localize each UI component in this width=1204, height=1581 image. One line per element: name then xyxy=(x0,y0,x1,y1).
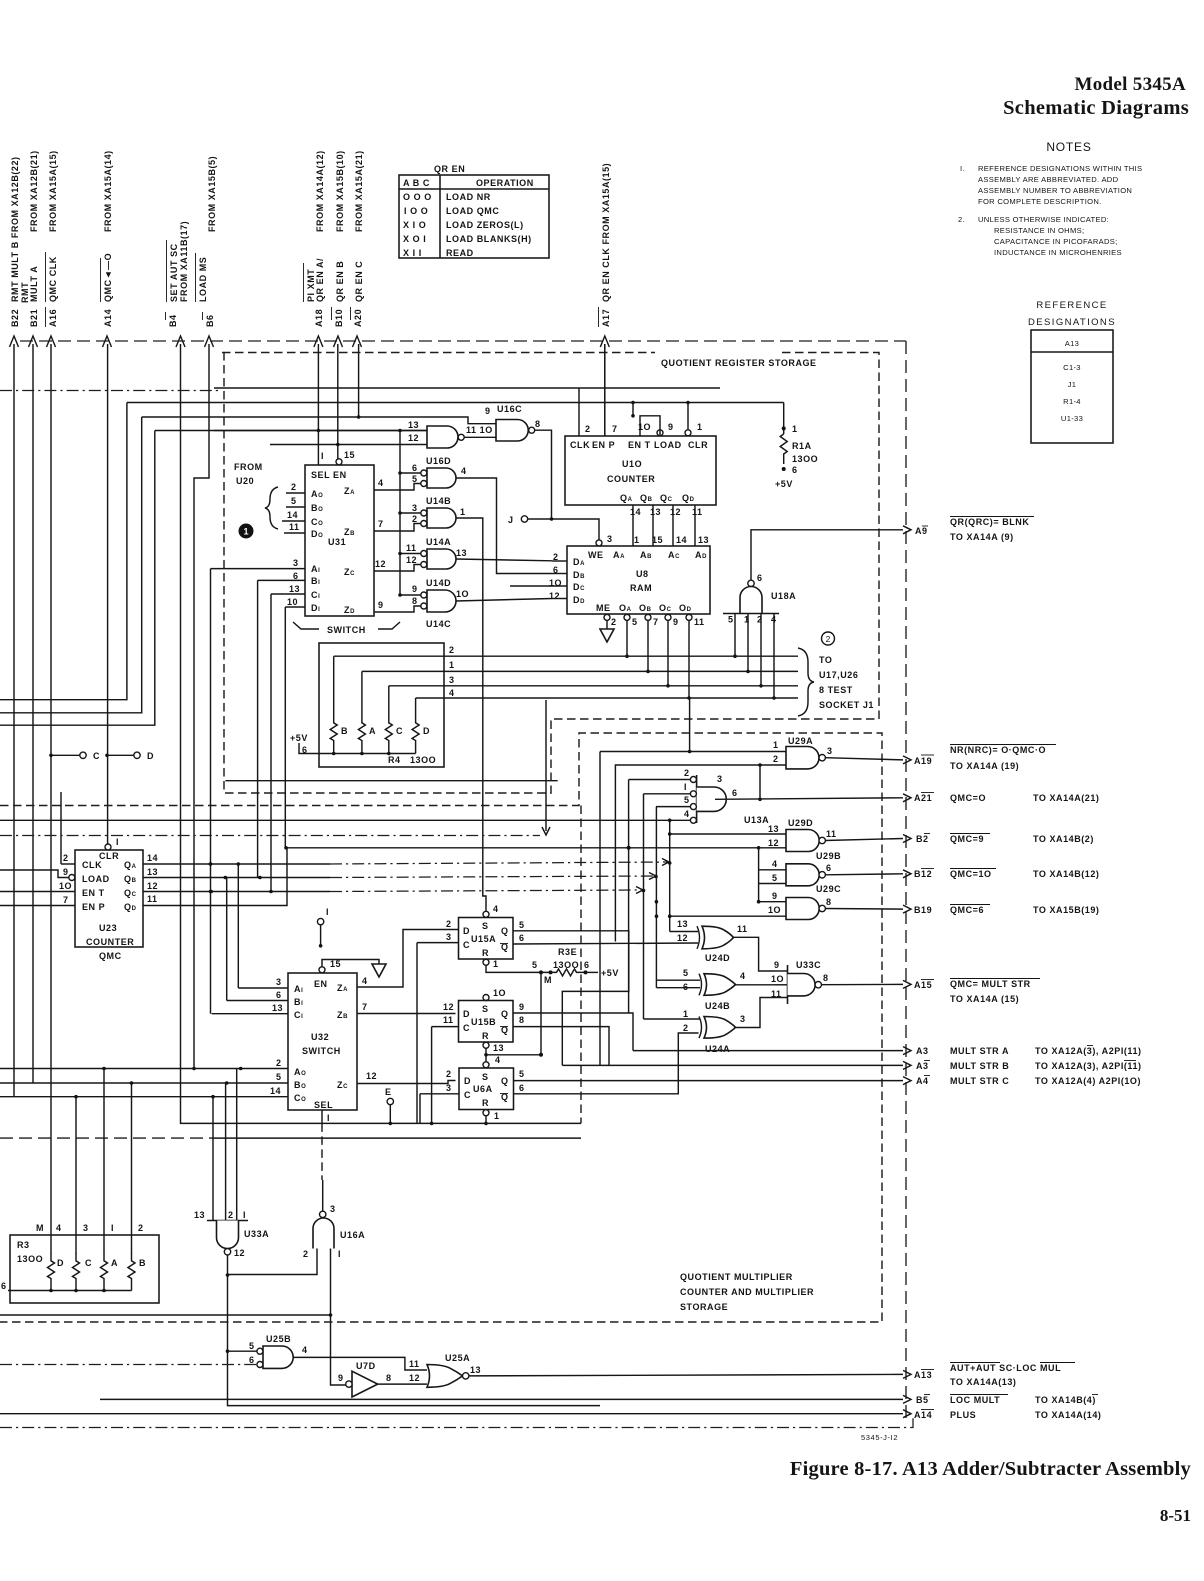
svg-text:7: 7 xyxy=(362,1002,368,1012)
svg-text:11 1O: 11 1O xyxy=(466,425,493,435)
svg-text:U16A: U16A xyxy=(340,1230,365,1240)
svg-text:QMC=6: QMC=6 xyxy=(950,905,984,915)
svg-text:CLK: CLK xyxy=(82,860,102,870)
svg-text:9: 9 xyxy=(774,960,780,970)
svg-text:A3: A3 xyxy=(916,1046,929,1056)
svg-text:MULT STR B: MULT STR B xyxy=(950,1061,1009,1071)
svg-text:14: 14 xyxy=(676,535,687,545)
svg-text:S: S xyxy=(482,921,489,931)
svg-text:U20: U20 xyxy=(236,476,254,486)
gate U7D inverter xyxy=(338,1361,427,1397)
svg-text:14: 14 xyxy=(287,510,298,520)
svg-text:READ: READ xyxy=(446,248,474,258)
flip-flop U6A xyxy=(420,1033,903,1125)
svg-text:13: 13 xyxy=(194,1210,205,1220)
svg-text:I.: I. xyxy=(960,164,965,173)
svg-text:13OO: 13OO xyxy=(410,755,436,765)
svg-text:FROM XA15A(14): FROM XA15A(14) xyxy=(103,150,113,232)
svg-text:QR EN A/: QR EN A/ xyxy=(315,258,325,302)
svg-text:TO XA14A (15): TO XA14A (15) xyxy=(950,994,1019,1004)
svg-text:X I I: X I I xyxy=(403,248,422,258)
svg-text:A15: A15 xyxy=(914,980,932,990)
svg-text:C: C xyxy=(396,726,403,736)
svg-text:U16C: U16C xyxy=(497,404,522,414)
svg-text:11: 11 xyxy=(289,522,300,532)
svg-text:8: 8 xyxy=(412,596,418,606)
svg-text:TO XA14A(21): TO XA14A(21) xyxy=(1033,793,1099,803)
svg-text:U16D: U16D xyxy=(426,456,451,466)
svg-text:8 TEST: 8 TEST xyxy=(819,685,853,695)
wire mult str A line xyxy=(633,1050,903,1052)
svg-text:4: 4 xyxy=(493,904,499,914)
svg-text:R3E: R3E xyxy=(558,947,577,957)
svg-text:LOAD MS: LOAD MS xyxy=(198,257,208,302)
qmc compare feeder verticals xyxy=(600,752,672,1066)
reference designations box xyxy=(1031,330,1113,443)
R3 resistor D xyxy=(48,1253,55,1291)
svg-text:A19: A19 xyxy=(914,756,932,766)
svg-text:4: 4 xyxy=(302,1345,308,1355)
svg-text:LOC MULT: LOC MULT xyxy=(950,1395,1000,1405)
svg-text:2: 2 xyxy=(291,482,297,492)
svg-text:6: 6 xyxy=(757,573,763,583)
svg-text:11: 11 xyxy=(826,829,837,839)
svg-text:QUOTIENT MULTIPLIER: QUOTIENT MULTIPLIER xyxy=(680,1272,793,1282)
gate U16C xyxy=(142,404,552,519)
svg-text:I: I xyxy=(116,837,119,847)
wire vertical x=546 xyxy=(545,700,547,831)
U10 top wires xyxy=(578,388,580,436)
svg-text:QMC=O: QMC=O xyxy=(950,793,986,803)
svg-text:Model 5345A: Model 5345A xyxy=(1075,74,1186,95)
svg-text:2.: 2. xyxy=(958,215,965,224)
svg-text:LOAD BLANKS(H): LOAD BLANKS(H) xyxy=(446,234,532,244)
svg-text:LOAD QMC: LOAD QMC xyxy=(446,206,499,216)
svg-text:I: I xyxy=(338,1249,341,1259)
svg-text:2: 2 xyxy=(63,853,69,863)
svg-text:8: 8 xyxy=(386,1373,392,1383)
svg-text:3: 3 xyxy=(717,774,723,784)
svg-text:11: 11 xyxy=(409,1359,420,1369)
svg-text:3: 3 xyxy=(293,558,299,568)
svg-text:13: 13 xyxy=(698,535,709,545)
svg-text:INDUCTANCE IN MICROHENRIES: INDUCTANCE IN MICROHENRIES xyxy=(994,248,1122,257)
svg-text:NOTES: NOTES xyxy=(1046,140,1091,154)
svg-text:1O: 1O xyxy=(493,988,506,998)
svg-text:M: M xyxy=(544,975,552,985)
svg-text:5: 5 xyxy=(412,474,418,484)
svg-text:3: 3 xyxy=(827,746,833,756)
svg-text:13OO: 13OO xyxy=(792,454,818,464)
svg-text:U23: U23 xyxy=(99,923,117,933)
U13A input wires xyxy=(629,779,691,781)
svg-text:U15B: U15B xyxy=(471,1017,496,1027)
svg-text:C: C xyxy=(93,751,100,761)
svg-text:3: 3 xyxy=(412,503,418,513)
R3 resistor A xyxy=(101,1253,108,1291)
gate U13A xyxy=(684,768,903,825)
U15A reset to R3E node M xyxy=(486,960,553,1055)
svg-text:1O: 1O xyxy=(59,881,72,891)
svg-text:7: 7 xyxy=(612,424,618,434)
svg-text:X I O: X I O xyxy=(403,220,426,230)
svg-text:TO XA14A (9): TO XA14A (9) xyxy=(950,532,1014,542)
svg-text:9: 9 xyxy=(772,891,778,901)
svg-text:1: 1 xyxy=(744,615,750,625)
svg-text:9: 9 xyxy=(668,422,674,432)
svg-text:13: 13 xyxy=(470,1365,481,1375)
input A20 QR EN C xyxy=(351,150,365,419)
svg-text:ASSEMBLY NUMBER TO ABBREVIA: ASSEMBLY NUMBER TO ABBREVIATION xyxy=(978,186,1132,195)
svg-text:4: 4 xyxy=(684,809,690,819)
svg-text:Q: Q xyxy=(501,1009,509,1019)
svg-text:QMC: QMC xyxy=(99,951,122,961)
QR EN table xyxy=(399,175,549,258)
note circle 2 (to U17,U26) xyxy=(822,632,835,645)
svg-text:7: 7 xyxy=(378,519,384,529)
svg-text:6: 6 xyxy=(584,960,590,970)
svg-text:B: B xyxy=(139,1258,146,1268)
svg-text:9: 9 xyxy=(485,406,491,416)
wire dash-dot rail y=835.5 xyxy=(0,835,540,837)
svg-text:A18: A18 xyxy=(314,309,324,327)
svg-text:OPERATION: OPERATION xyxy=(476,178,534,188)
svg-text:2: 2 xyxy=(773,754,779,764)
svg-text:4: 4 xyxy=(461,466,467,476)
svg-text:D: D xyxy=(147,751,154,761)
resistor pack R3 xyxy=(1,1223,159,1303)
svg-text:EN: EN xyxy=(314,979,328,989)
svg-text:15: 15 xyxy=(330,959,341,969)
flip-flop U15A xyxy=(417,904,698,1123)
input B6 LOAD MS xyxy=(192,156,217,1070)
svg-text:RESISTANCE IN OHMS;: RESISTANCE IN OHMS; xyxy=(994,226,1084,235)
svg-text:EN P: EN P xyxy=(82,902,105,912)
R4 resistor C xyxy=(385,686,392,754)
svg-text:12: 12 xyxy=(375,559,386,569)
output A13 AUT xyxy=(903,1363,1075,1388)
svg-text:DESIGNATIONS: DESIGNATIONS xyxy=(1028,317,1116,328)
svg-text:1: 1 xyxy=(634,535,640,545)
J test point xyxy=(508,515,599,540)
svg-text:R3: R3 xyxy=(17,1240,30,1250)
svg-text:U25B: U25B xyxy=(266,1334,291,1344)
U23 QC rail xyxy=(143,887,644,894)
svg-text:B6: B6 xyxy=(205,314,215,327)
U23 QB rail xyxy=(143,873,656,880)
svg-text:A: A xyxy=(111,1258,118,1268)
svg-text:U14C: U14C xyxy=(426,619,451,629)
svg-text:7: 7 xyxy=(63,895,69,905)
svg-text:4: 4 xyxy=(740,971,746,981)
svg-text:5: 5 xyxy=(632,617,638,627)
svg-text:3: 3 xyxy=(449,675,455,685)
svg-text:1O: 1O xyxy=(456,589,469,599)
svg-text:I: I xyxy=(321,451,324,461)
input B4 SET AUT SC xyxy=(166,221,190,1124)
svg-text:12: 12 xyxy=(406,555,417,565)
outer assembly boundary (long dash) xyxy=(20,340,906,342)
wire left feeder verticals xyxy=(185,1122,581,1124)
svg-text:CLK: CLK xyxy=(570,440,590,450)
svg-text:C: C xyxy=(463,1023,470,1033)
svg-text:13: 13 xyxy=(408,420,419,430)
svg-text:U14B: U14B xyxy=(426,496,451,506)
svg-text:12: 12 xyxy=(549,591,560,601)
svg-text:COUNTER: COUNTER xyxy=(607,474,655,484)
svg-text:1: 1 xyxy=(460,507,466,517)
wire B5 line xyxy=(100,1398,903,1400)
wire R3 feeder verticals xyxy=(75,1097,77,1254)
svg-text:1: 1 xyxy=(243,527,248,537)
svg-text:REFERENCE DESIGNATIONS WITHI: REFERENCE DESIGNATIONS WITHIN THIS xyxy=(978,164,1142,173)
svg-text:QMC= MULT STR: QMC= MULT STR xyxy=(950,979,1031,989)
flip-flop U15B xyxy=(430,988,633,1125)
svg-text:3: 3 xyxy=(446,932,452,942)
output A3bar MULT STR B xyxy=(903,1061,1142,1072)
svg-text:C: C xyxy=(463,940,470,950)
svg-text:CLR: CLR xyxy=(688,440,708,450)
svg-text:13: 13 xyxy=(650,507,661,517)
svg-text:12: 12 xyxy=(443,1002,454,1012)
svg-text:11: 11 xyxy=(443,1015,454,1025)
svg-text:SEL: SEL xyxy=(314,1100,333,1110)
svg-text:3: 3 xyxy=(330,1204,336,1214)
gate U29C xyxy=(655,884,903,920)
svg-text:D: D xyxy=(463,1009,470,1019)
svg-text:SOCKET J1: SOCKET J1 xyxy=(819,700,874,710)
output A15 QMC=MULT STR xyxy=(903,979,1040,1005)
svg-text:C1-3: C1-3 xyxy=(1063,363,1081,372)
svg-text:4: 4 xyxy=(772,859,778,869)
svg-text:1O: 1O xyxy=(768,905,781,915)
gate U29A xyxy=(600,698,903,942)
svg-text:8: 8 xyxy=(519,1015,525,1025)
svg-text:D: D xyxy=(463,926,470,936)
svg-text:5: 5 xyxy=(772,873,778,883)
svg-text:TO XA14A (19): TO XA14A (19) xyxy=(950,761,1019,771)
svg-text:B21: B21 xyxy=(29,309,39,327)
R3 resistor C xyxy=(73,1253,80,1291)
input A17 QR EN CLK xyxy=(599,163,612,436)
svg-text:A: A xyxy=(369,726,376,736)
svg-text:SET AUT SC: SET AUT SC xyxy=(169,243,179,302)
svg-text:PLUS: PLUS xyxy=(950,1410,976,1420)
svg-text:R: R xyxy=(482,948,489,958)
svg-text:M: M xyxy=(36,1223,44,1233)
svg-text:2: 2 xyxy=(611,617,617,627)
svg-text:I: I xyxy=(327,1113,330,1123)
svg-text:14: 14 xyxy=(630,507,641,517)
svg-text:2: 2 xyxy=(585,424,591,434)
gate U16A (nand pointing up) xyxy=(228,1204,366,1385)
svg-text:FROM XA11B(17): FROM XA11B(17) xyxy=(179,221,189,302)
gate U33A (nand pointing down) xyxy=(194,1210,600,1406)
gate U14A xyxy=(374,537,552,571)
bus wires R4 to test socket xyxy=(334,645,798,698)
svg-text:QR(QRC)= BLNK: QR(QRC)= BLNK xyxy=(950,517,1029,527)
svg-text:12: 12 xyxy=(677,933,688,943)
svg-text:13: 13 xyxy=(289,584,300,594)
svg-text:6: 6 xyxy=(732,788,738,798)
svg-text:13OO: 13OO xyxy=(17,1254,43,1264)
svg-text:E: E xyxy=(385,1087,392,1097)
svg-text:1: 1 xyxy=(773,740,779,750)
svg-text:LOAD NR: LOAD NR xyxy=(446,192,491,202)
output A14 PLUS xyxy=(903,1410,1101,1421)
svg-text:QR EN B: QR EN B xyxy=(335,261,345,302)
svg-text:6: 6 xyxy=(519,933,525,943)
output B19 QMC=6 xyxy=(903,905,1099,916)
svg-text:SEL EN: SEL EN xyxy=(311,470,347,480)
svg-text:R4: R4 xyxy=(388,755,401,765)
svg-text:SWITCH: SWITCH xyxy=(327,625,366,635)
svg-text:J1: J1 xyxy=(1068,380,1077,389)
svg-text:1O: 1O xyxy=(771,974,784,984)
svg-text:5: 5 xyxy=(728,615,734,625)
svg-text:O O O: O O O xyxy=(403,192,432,202)
ground below U8 ME xyxy=(606,620,608,629)
svg-text:5: 5 xyxy=(249,1341,255,1351)
svg-text:9: 9 xyxy=(412,584,418,594)
svg-text:FROM XA12B(21): FROM XA12B(21) xyxy=(29,150,39,232)
gate U24A xor xyxy=(644,998,776,1055)
svg-text:5: 5 xyxy=(532,960,538,970)
svg-text:3: 3 xyxy=(83,1223,89,1233)
brace for U31 select inputs xyxy=(265,487,278,529)
IC U31 switch xyxy=(211,450,401,635)
svg-text:B5: B5 xyxy=(916,1395,929,1405)
svg-text:2: 2 xyxy=(276,1058,282,1068)
gate U29B xyxy=(759,848,903,902)
U31 switch brace decoration xyxy=(293,622,319,629)
svg-text:U6A: U6A xyxy=(473,1084,493,1094)
svg-text:1: 1 xyxy=(494,1111,500,1121)
svg-text:WE: WE xyxy=(588,550,604,560)
svg-text:C: C xyxy=(85,1258,92,1268)
gate U33C xyxy=(771,960,903,1004)
svg-text:11: 11 xyxy=(147,894,158,904)
svg-text:8: 8 xyxy=(535,419,541,429)
input B10 QR EN B xyxy=(332,150,346,459)
gate U25A nor xyxy=(409,1353,903,1387)
svg-text:2: 2 xyxy=(228,1210,234,1220)
gate U24D xor xyxy=(670,919,775,971)
svg-text:B19: B19 xyxy=(914,905,932,915)
resistor pack R4 xyxy=(290,643,444,767)
svg-text:U24D: U24D xyxy=(705,953,730,963)
svg-text:STORAGE: STORAGE xyxy=(680,1302,728,1312)
svg-text:Figure 8-17. A13 Adder/Subtra: Figure 8-17. A13 Adder/Subtracter Assemb… xyxy=(790,1458,1192,1480)
svg-text:B22: B22 xyxy=(10,309,20,327)
svg-text:Q: Q xyxy=(501,926,509,936)
wire bend left C xyxy=(0,431,155,726)
R4 resistor D xyxy=(412,698,419,754)
output B2 QMC=9 xyxy=(903,834,1094,845)
svg-text:6: 6 xyxy=(792,465,798,475)
svg-text:2: 2 xyxy=(757,615,763,625)
svg-text:I: I xyxy=(111,1223,114,1233)
svg-text:11: 11 xyxy=(737,924,748,934)
svg-text:13: 13 xyxy=(677,919,688,929)
svg-text:I: I xyxy=(243,1210,246,1220)
IC U32 switch xyxy=(0,959,386,1211)
svg-text:SWITCH: SWITCH xyxy=(302,1046,341,1056)
svg-text:U17,U26: U17,U26 xyxy=(819,670,858,680)
svg-text:2: 2 xyxy=(446,1069,452,1079)
svg-text:12: 12 xyxy=(408,433,419,443)
svg-text:TO XA14A(14): TO XA14A(14) xyxy=(1035,1410,1101,1420)
svg-text:11: 11 xyxy=(406,543,417,553)
svg-text:A3: A3 xyxy=(916,1061,929,1071)
svg-text:PI XMT: PI XMT xyxy=(306,269,316,302)
svg-text:TO XA12A(3), A2PI(11): TO XA12A(3), A2PI(11) xyxy=(1035,1046,1142,1056)
U23 QA rail xyxy=(143,859,670,866)
svg-text:A4: A4 xyxy=(916,1076,929,1086)
svg-text:11: 11 xyxy=(692,507,703,517)
svg-text:MULT A: MULT A xyxy=(29,266,39,302)
svg-text:U1O: U1O xyxy=(622,459,642,469)
svg-text:2: 2 xyxy=(412,514,418,524)
gate U14C xyxy=(374,578,552,629)
svg-text:U33C: U33C xyxy=(796,960,821,970)
wire long rail y=402.5 to R1A xyxy=(127,402,784,404)
svg-text:MULT STR C: MULT STR C xyxy=(950,1076,1009,1086)
svg-text:U32: U32 xyxy=(311,1032,329,1042)
svg-text:QMC=1O: QMC=1O xyxy=(950,869,992,879)
svg-text:J: J xyxy=(508,515,514,525)
svg-text:TO XA14B(4): TO XA14B(4) xyxy=(1035,1395,1096,1405)
svg-text:6: 6 xyxy=(249,1355,255,1365)
svg-text:I O O: I O O xyxy=(404,206,428,216)
svg-text:3: 3 xyxy=(607,534,613,544)
U18A output to A9 xyxy=(751,530,903,580)
svg-text:X O I: X O I xyxy=(403,234,426,244)
svg-text:U33A: U33A xyxy=(244,1229,269,1239)
gate U16D xyxy=(374,456,552,574)
test point C xyxy=(49,754,53,758)
svg-text:U24A: U24A xyxy=(705,1044,730,1054)
svg-text:12: 12 xyxy=(670,507,681,517)
svg-text:QMC◄—O: QMC◄—O xyxy=(103,253,113,302)
svg-text:U1-33: U1-33 xyxy=(1061,414,1083,423)
svg-text:TO XA14B(2): TO XA14B(2) xyxy=(1033,834,1094,844)
feeder vertical from U29A input line xyxy=(599,752,601,1066)
svg-text:5: 5 xyxy=(276,1072,282,1082)
svg-text:13: 13 xyxy=(456,548,467,558)
svg-text:COUNTER: COUNTER xyxy=(86,937,134,947)
input A16 QMC CLK xyxy=(46,150,59,1253)
svg-text:8: 8 xyxy=(823,973,829,983)
svg-text:TO XA12A(3), A2PI(11): TO XA12A(3), A2PI(11) xyxy=(1035,1061,1142,1071)
svg-text:7: 7 xyxy=(653,617,659,627)
svg-text:FROM XA14A(12): FROM XA14A(12) xyxy=(315,150,325,232)
svg-text:B2: B2 xyxy=(916,834,929,844)
svg-text:COUNTER AND MULTIPLIER: COUNTER AND MULTIPLIER xyxy=(680,1287,814,1297)
svg-text:TO XA15B(19): TO XA15B(19) xyxy=(1033,905,1099,915)
svg-text:D: D xyxy=(464,1076,471,1086)
dash-dot stub top left xyxy=(0,390,222,392)
svg-text:AUT+AUT SC·LOC MUL: AUT+AUT SC·LOC MUL xyxy=(950,1363,1061,1373)
svg-text:RAM: RAM xyxy=(630,583,652,593)
svg-text:+5V: +5V xyxy=(601,968,619,978)
svg-text:TO: TO xyxy=(819,655,832,665)
svg-text:1: 1 xyxy=(449,660,455,670)
svg-text:TO XA14A(13): TO XA14A(13) xyxy=(950,1377,1016,1387)
svg-text:TO XA14B(12): TO XA14B(12) xyxy=(1033,869,1099,879)
gate U16B (unlabeled nand) xyxy=(214,420,496,448)
input B21 RMT MULT A xyxy=(20,150,39,1083)
